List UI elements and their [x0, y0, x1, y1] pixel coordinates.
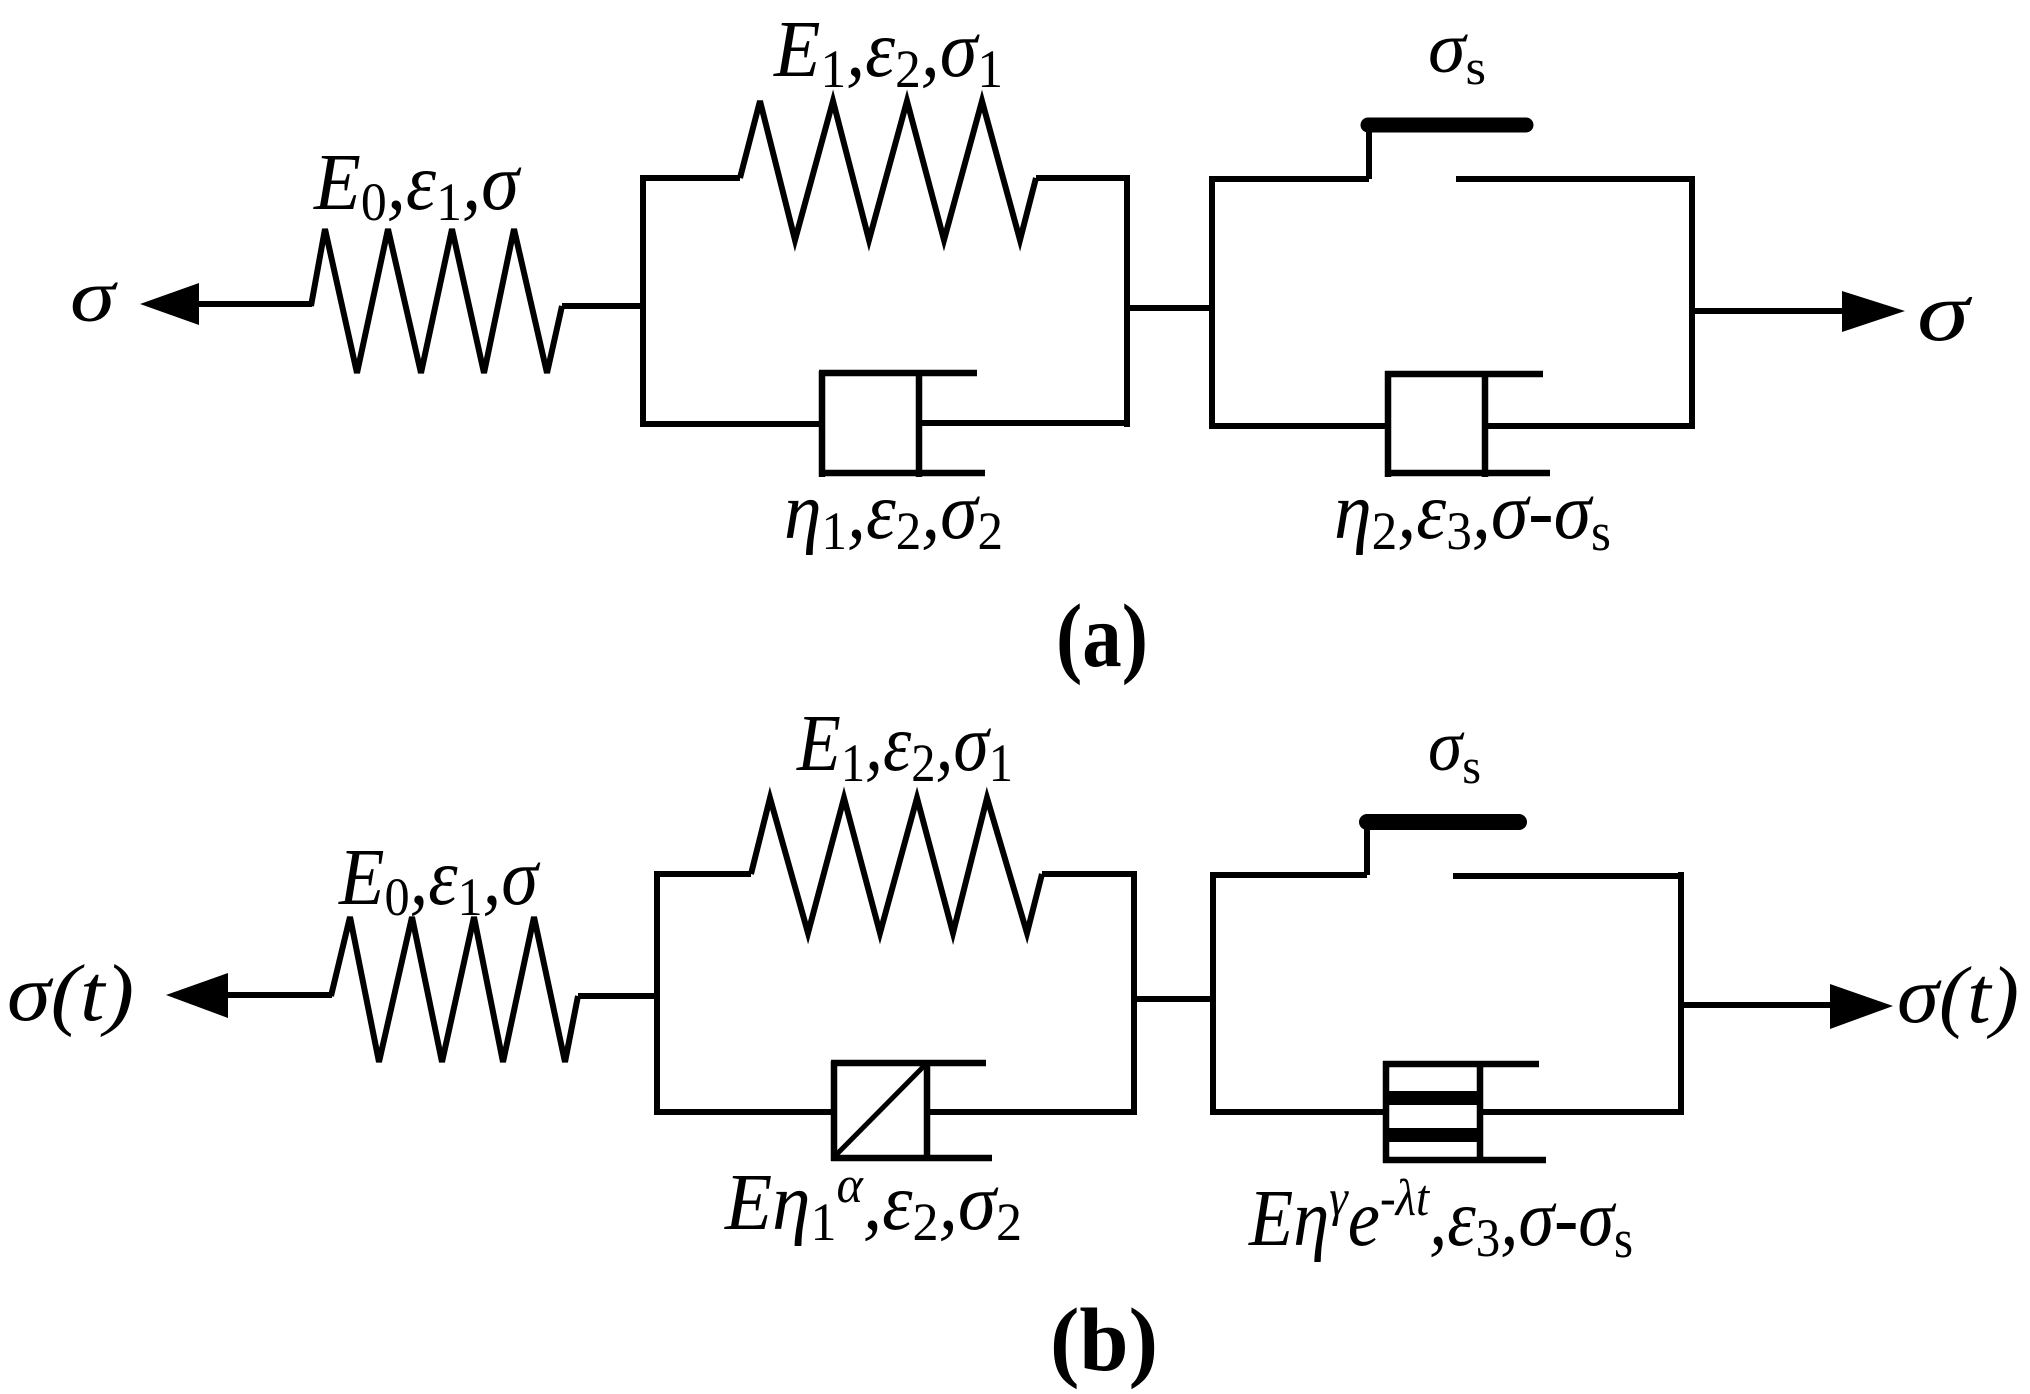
bingham box2 top wire right (b): [1453, 873, 1683, 879]
abel dashpot rod wire (b): [927, 1109, 1136, 1115]
kelvin box1 right vertical (b): [1131, 871, 1137, 1115]
striped dashpot stripe 2 (b): [1387, 1128, 1480, 1142]
svg-text:σ: σ: [1917, 266, 1973, 359]
striped dashpot piston (b): [1477, 1061, 1484, 1163]
kelvin box1 top wire right (a): [1036, 175, 1129, 181]
striped dashpot cylinder (b): [1383, 1061, 1546, 1163]
kelvin box1 top wire left (a): [641, 175, 740, 181]
kelvin box1 left vertical (b): [654, 871, 660, 1115]
abel dashpot diagonal (b): [836, 1065, 925, 1155]
bingham box2 top wire left (b): [1211, 872, 1367, 878]
dashpot eta2 rod wire (a): [1485, 423, 1694, 429]
wire box1 to box2 (b): [1134, 996, 1216, 1002]
kelvin box1 top wire right (b): [1042, 871, 1136, 877]
spring E1 (a): [740, 101, 1036, 240]
kelvin box1 bottom wire left (a): [641, 421, 822, 427]
abel dashpot piston (b): [924, 1061, 931, 1161]
dashpot eta1 cylinder (a): [819, 371, 985, 477]
svg-text:E0,ε1,σ: E0,ε1,σ: [313, 139, 521, 232]
arrow right (b): [1681, 984, 1893, 1029]
svg-text:σs: σs: [1428, 706, 1481, 794]
friction slider stub (b): [1364, 822, 1370, 875]
svg-text:η1,ε2,σ2: η1,ε2,σ2: [784, 468, 1003, 561]
striped dashpot stripe 1 (b): [1387, 1091, 1480, 1105]
arrow left (b): [166, 973, 332, 1018]
friction slider stub (a): [1366, 122, 1372, 179]
bingham box2 right vertical (a): [1689, 176, 1695, 429]
bingham box2 right vertical (b): [1678, 872, 1684, 1115]
kelvin box1 bottom wire left (b): [655, 1109, 834, 1115]
spring E0 (a): [311, 229, 562, 373]
svg-text:η2,ε3,σ-σs: η2,ε3,σ-σs: [1334, 468, 1611, 562]
svg-text:σs: σs: [1428, 8, 1486, 95]
svg-text:(a): (a): [1056, 587, 1148, 686]
svg-text:Eηγe-λt,ε3,σ-σs: Eηγe-λt,ε3,σ-σs: [1248, 1170, 1633, 1269]
kelvin box1 top wire left (b): [655, 871, 751, 877]
spring E1 (b): [751, 798, 1042, 933]
svg-text:E0,ε1,σ: E0,ε1,σ: [338, 834, 540, 927]
bingham box2 bottom wire left (a): [1210, 423, 1388, 429]
svg-text:E1,ε2,σ1: E1,ε2,σ1: [773, 6, 1003, 99]
wire spring E0 to box1 (b): [578, 993, 660, 999]
dashpot eta2 piston (a): [1482, 371, 1489, 477]
bingham box2 top wire left (a): [1210, 176, 1369, 182]
svg-text:σ(t): σ(t): [7, 950, 134, 1038]
arrow left (a): [140, 283, 312, 325]
wire box1 to box2 (a): [1127, 305, 1214, 311]
friction slider plate sigma_s (a): [1368, 118, 1526, 133]
dashpot eta1 piston (a): [916, 371, 923, 477]
svg-text:σ: σ: [70, 256, 118, 338]
bingham box2 bottom wire left (b): [1211, 1109, 1386, 1115]
svg-text:E1,ε2,σ1: E1,ε2,σ1: [796, 700, 1013, 793]
striped dashpot rod wire (b): [1480, 1109, 1683, 1115]
friction slider plate sigma_s (b): [1367, 814, 1519, 830]
svg-text:σ(t): σ(t): [1897, 952, 2019, 1040]
bingham box2 top wire right (a): [1456, 176, 1694, 182]
svg-text:(b): (b): [1050, 1291, 1158, 1390]
spring E0 (b): [331, 917, 578, 1062]
bingham box2 left vertical (a): [1209, 176, 1215, 429]
bingham box2 left vertical (b): [1210, 872, 1216, 1115]
dashpot eta1 rod wire (a): [919, 420, 1129, 426]
dashpot eta2 cylinder (a): [1385, 371, 1550, 477]
svg-text:Eη1α,ε2,σ2: Eη1α,ε2,σ2: [724, 1157, 1022, 1252]
wire spring E0 to box1 (a): [562, 303, 646, 309]
abel dashpot cylinder (b): [831, 1061, 992, 1161]
kelvin box1 right vertical (a): [1124, 175, 1130, 427]
kelvin box1 left vertical (a): [640, 175, 646, 427]
arrow right (a): [1692, 291, 1905, 332]
